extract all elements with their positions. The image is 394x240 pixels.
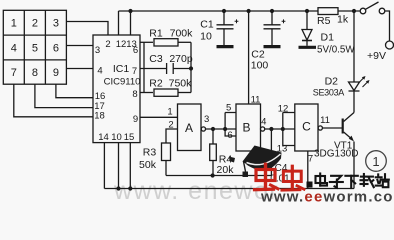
svg-text:11: 11 <box>320 115 330 126</box>
svg-text:5V/0.5W: 5V/0.5W <box>317 45 355 56</box>
wire C out to VT1 base <box>322 127 342 129</box>
svg-text:12: 12 <box>278 104 289 115</box>
spacer <box>0 0 1 1</box>
junction B branch <box>223 127 227 131</box>
svg-text:6: 6 <box>133 45 138 56</box>
switch S <box>360 8 366 14</box>
junction C2 <box>270 9 274 13</box>
junction C3-bus <box>189 66 193 70</box>
label R3 <box>139 147 157 172</box>
signal wire R3-R4-C4 <box>166 175 271 177</box>
svg-text:R5: R5 <box>317 15 331 27</box>
svg-text:15: 15 <box>124 132 135 143</box>
svg-text:SE303A: SE303A <box>313 88 345 98</box>
svg-text:11: 11 <box>251 95 261 106</box>
ground C1 <box>217 45 234 48</box>
svg-text:750k: 750k <box>169 78 193 90</box>
svg-text:2: 2 <box>168 120 173 131</box>
svg-text:CIC9110: CIC9110 <box>104 77 141 88</box>
zener diode D1 <box>306 11 308 30</box>
resistor R4 <box>212 129 214 144</box>
ground D1 <box>299 46 317 49</box>
junction D2 branch <box>352 9 356 13</box>
gate C output bubble <box>318 126 322 130</box>
svg-text:700k: 700k <box>170 27 194 39</box>
label D1 <box>317 32 355 56</box>
svg-text:1: 1 <box>167 107 172 118</box>
label C2 <box>251 49 269 72</box>
junction D1 <box>305 9 309 13</box>
svg-text:18: 18 <box>94 111 105 122</box>
svg-text:C: C <box>302 120 311 134</box>
svg-text:8: 8 <box>132 89 137 100</box>
gate B output bubble <box>261 127 265 131</box>
svg-text:C3: C3 <box>149 53 163 65</box>
svg-text:4: 4 <box>11 42 17 54</box>
svg-text:5: 5 <box>32 42 38 54</box>
watermark red char chong 2 <box>282 166 304 190</box>
svg-text:10: 10 <box>111 132 122 143</box>
svg-text:2: 2 <box>32 18 38 30</box>
capacitor C3 <box>166 63 168 74</box>
char zai <box>361 174 374 187</box>
wire IC pin8 <box>140 92 153 94</box>
wire IC pin9 to gate A <box>140 116 178 118</box>
ground rail wire <box>104 188 354 190</box>
wire keypad row3 to IC pin4 <box>66 68 93 70</box>
svg-text:5: 5 <box>226 103 231 114</box>
wire IC pin13 to top rail <box>130 11 132 35</box>
junction R4 top <box>211 127 215 131</box>
svg-text:D1: D1 <box>321 32 335 44</box>
svg-text:+9V: +9V <box>367 50 386 62</box>
gate A box <box>178 104 202 151</box>
svg-text:3: 3 <box>95 45 100 56</box>
svg-text:7: 7 <box>11 67 17 79</box>
wire IC pin7 <box>140 68 166 70</box>
junction pin15-rail <box>128 186 132 190</box>
svg-text:1: 1 <box>372 154 379 169</box>
wire keypad col2 to IC pin17 <box>35 84 93 107</box>
svg-text:7: 7 <box>132 66 137 77</box>
junction B pin11 <box>247 9 251 13</box>
watermark site name char dian <box>316 174 389 189</box>
svg-text:3: 3 <box>53 18 59 30</box>
wire B input branches <box>225 113 236 137</box>
svg-text:R2: R2 <box>149 78 163 90</box>
svg-text:270p: 270p <box>169 53 193 65</box>
wire A pin2 to R3 <box>166 129 178 143</box>
svg-text:www.eeworm.com: www.eeworm.com <box>260 189 394 204</box>
LED D2 <box>353 11 355 82</box>
svg-text:6: 6 <box>227 130 232 141</box>
svg-text:B: B <box>242 121 250 135</box>
labels R1 C3 R2 <box>149 27 193 89</box>
wire A out to B in <box>206 128 237 130</box>
svg-text:1: 1 <box>11 18 17 30</box>
wire C pin7 to ground rail <box>307 151 309 189</box>
svg-text:10: 10 <box>200 31 212 43</box>
wire keypad row2 to IC pin3 <box>66 45 93 47</box>
svg-text:C1: C1 <box>200 19 214 31</box>
svg-text:3DG130D: 3DG130D <box>314 149 358 160</box>
wire C input branches <box>283 113 295 146</box>
junction pin10-rail <box>116 186 120 190</box>
wire keypad col1 to IC pin18 <box>14 84 93 117</box>
svg-text:100: 100 <box>251 60 269 72</box>
svg-text:4: 4 <box>97 66 102 77</box>
svg-text:9: 9 <box>133 114 138 125</box>
char zhan <box>376 174 389 187</box>
watermark red char chong 1 <box>255 164 279 189</box>
capacitor C2 <box>271 11 273 25</box>
wire B pin11 from rail <box>248 11 250 104</box>
wire IC pin15 to ground rail <box>129 143 131 189</box>
label C1 <box>200 19 214 43</box>
svg-text:8: 8 <box>32 67 38 79</box>
svg-text:7: 7 <box>308 154 313 165</box>
svg-text:9: 9 <box>53 67 59 79</box>
capacitor C1 <box>223 11 225 25</box>
wire B out to C in <box>265 128 295 130</box>
char zi <box>330 176 343 188</box>
LED arrows <box>359 77 365 83</box>
junction pin13 <box>128 9 132 13</box>
wire keypad col3 to IC pin16 <box>56 84 93 98</box>
wire IC pin6 <box>140 41 153 43</box>
battery terminal <box>386 41 394 49</box>
wire IC pin14 to ground rail <box>103 143 105 189</box>
svg-text:50k: 50k <box>139 159 157 171</box>
svg-text:20k: 20k <box>217 164 235 176</box>
svg-text:2: 2 <box>105 39 110 50</box>
watermark mortarboard hat <box>229 146 282 178</box>
svg-text:4: 4 <box>261 117 266 128</box>
svg-text:IC1: IC1 <box>113 63 130 75</box>
transistor VT1 <box>342 119 344 134</box>
wire IC pin12 to top rail <box>118 11 120 35</box>
svg-text:3: 3 <box>204 114 209 125</box>
output terminal circled 1 <box>366 151 387 172</box>
svg-text:A: A <box>185 121 193 135</box>
char xia <box>345 176 357 188</box>
junction C1 <box>222 9 226 13</box>
junction C4 top <box>269 127 273 131</box>
svg-text:6: 6 <box>53 42 59 54</box>
top supply rail wire <box>119 10 319 12</box>
IC pin number labels <box>94 39 138 143</box>
wire keypad row1 to IC pin2 <box>66 22 108 36</box>
IC U1 CIC9110 box <box>93 35 140 143</box>
svg-text:D2: D2 <box>325 76 339 88</box>
gate A output bubble <box>201 127 205 131</box>
svg-text:R3: R3 <box>143 147 157 159</box>
svg-text:14: 14 <box>98 132 109 143</box>
keypad digits <box>11 18 59 79</box>
resistor R5 <box>318 8 338 15</box>
keypad grid <box>3 10 66 84</box>
gate B box <box>236 104 261 151</box>
ground C2 <box>264 45 281 48</box>
resistor R1 <box>154 39 178 46</box>
gate pin labels <box>167 95 330 165</box>
IC1 name <box>104 63 141 88</box>
watermark black dot <box>307 182 313 188</box>
gate C box <box>295 104 318 151</box>
svg-text:1k: 1k <box>337 14 349 26</box>
right vertical bus <box>190 42 192 92</box>
label D2 <box>313 76 345 98</box>
junction R4-signal <box>211 173 215 177</box>
wire IC pin10 to ground rail <box>118 143 120 189</box>
resistor R2 <box>154 89 178 96</box>
left vertical bus <box>143 42 145 92</box>
svg-text:12: 12 <box>116 39 127 50</box>
capacitor C4 <box>270 129 272 157</box>
resistor R3 <box>162 143 171 161</box>
svg-text:R1: R1 <box>149 27 163 39</box>
junction C branch <box>281 127 285 131</box>
